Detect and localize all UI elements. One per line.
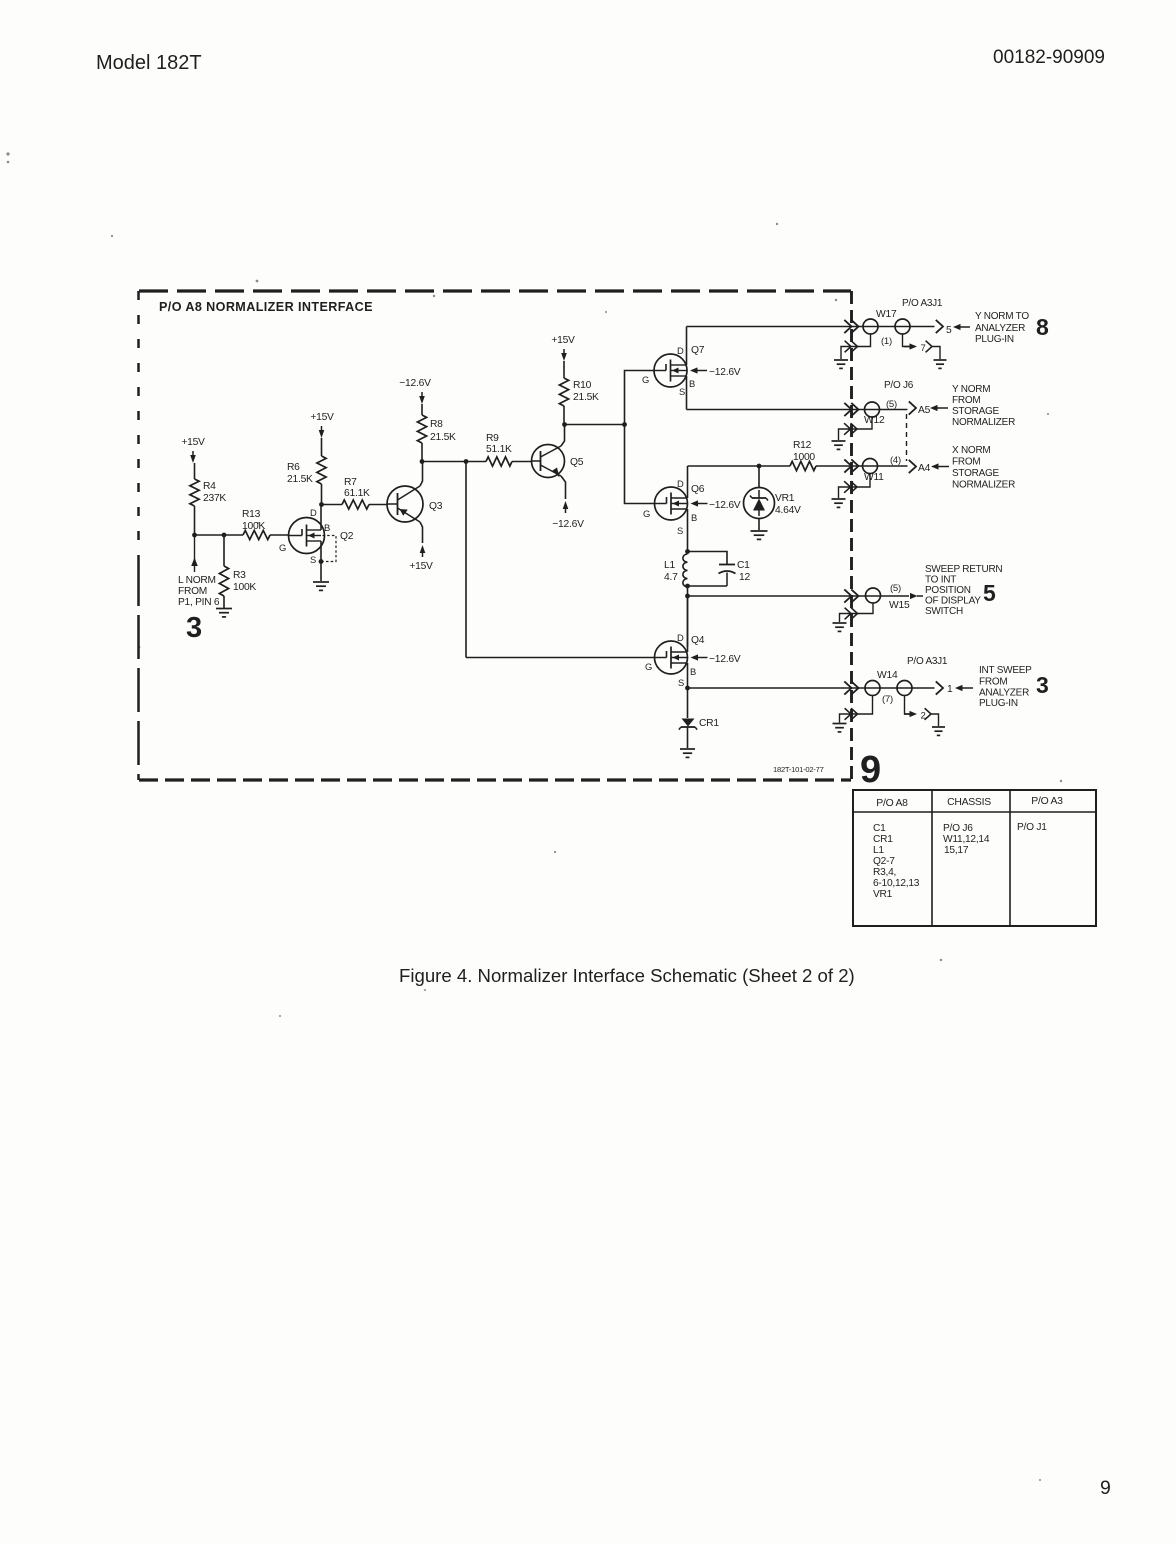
node Q2 drain / R6 / R7 — [319, 502, 324, 507]
wire node to main vertical — [422, 461, 466, 463]
svg-text:1000: 1000 — [793, 452, 815, 463]
svg-text:FROM: FROM — [979, 677, 1007, 688]
wire node to R3/R13 — [195, 534, 244, 536]
svg-text:W17: W17 — [876, 309, 897, 320]
X NORM pin A4 — [909, 460, 916, 473]
Q4 bulk -12.6V arrow — [691, 654, 699, 660]
Q7 drain wire up — [686, 327, 688, 366]
svg-text:9: 9 — [860, 749, 881, 791]
SWEEP RETURN output arrow — [910, 593, 918, 599]
svg-text:Model 182T: Model 182T — [96, 52, 202, 74]
svg-text:P1, PIN 6: P1, PIN 6 — [178, 597, 220, 608]
Q3 emitter wire to +15V — [420, 522, 423, 543]
wire R13 to Q2 gate — [270, 534, 289, 536]
svg-text:D: D — [677, 478, 684, 489]
svg-text:B: B — [689, 378, 695, 389]
node R8 / Q3 collector — [420, 459, 425, 464]
svg-text:−12.6V: −12.6V — [552, 519, 584, 530]
wire CR1 to ground — [687, 727, 689, 748]
svg-text:Q3: Q3 — [429, 501, 443, 512]
svg-text:61.1K: 61.1K — [344, 488, 370, 499]
svg-text:G: G — [642, 374, 649, 385]
svg-text:Q5: Q5 — [570, 457, 584, 468]
svg-text:+15V: +15V — [310, 412, 334, 423]
node L NORM input junction — [192, 533, 197, 538]
Y NORM TO output arrow pin 5 — [936, 320, 943, 333]
svg-text:15,17: 15,17 — [944, 845, 969, 856]
wire R3 to ground — [223, 596, 225, 608]
resistor R9 51.1K — [466, 461, 486, 463]
svg-text:9: 9 — [1100, 1477, 1111, 1499]
Q6 source wire down — [687, 509, 689, 552]
svg-text:Q7: Q7 — [691, 345, 705, 356]
node sweep return tap — [685, 594, 690, 599]
svg-text:−12.6V: −12.6V — [709, 367, 741, 378]
svg-text:B: B — [690, 666, 696, 677]
svg-text:L1: L1 — [873, 845, 884, 856]
svg-text:B: B — [691, 512, 697, 523]
svg-text:Y NORM TO: Y NORM TO — [975, 311, 1029, 322]
Y NORM FROM pin A5 — [909, 401, 916, 414]
ground below R3 — [216, 608, 232, 610]
svg-text:OF DISPLAY: OF DISPLAY — [925, 596, 981, 607]
svg-text:−12.6V: −12.6V — [709, 654, 741, 665]
svg-text:C1: C1 — [873, 823, 886, 834]
W11 ground tail — [839, 474, 871, 499]
svg-text:B: B — [324, 522, 330, 533]
svg-text:Q4: Q4 — [691, 635, 705, 646]
svg-text:CR1: CR1 — [699, 718, 719, 729]
W15 ground tail — [840, 603, 874, 622]
svg-text:12: 12 — [739, 572, 750, 583]
capacitor C1 — [688, 552, 751, 587]
resistor R4 237K — [190, 479, 199, 506]
svg-text:CHASSIS: CHASSIS — [947, 797, 991, 808]
svg-text:D: D — [677, 345, 684, 356]
svg-text:6-10,12,13: 6-10,12,13 — [873, 878, 920, 889]
svg-text:ANALYZER: ANALYZER — [979, 688, 1029, 699]
svg-text:−12.6V: −12.6V — [709, 500, 741, 511]
Q5 collector wire to R10 node — [561, 425, 565, 447]
svg-text:5: 5 — [983, 580, 996, 606]
svg-text:P/O J6: P/O J6 — [943, 823, 973, 834]
transistor Q6 (MOSFET) — [643, 478, 705, 536]
svg-text:1: 1 — [947, 684, 953, 695]
transistor Q4 (MOSFET) — [645, 632, 705, 688]
wire R7 to Q3 base — [369, 504, 387, 506]
svg-text:R8: R8 — [430, 419, 443, 430]
long vertical wire to Q4 gate — [465, 462, 467, 658]
wire R9 to Q5 base — [512, 461, 532, 463]
svg-text:G: G — [279, 542, 286, 553]
svg-text:STORAGE: STORAGE — [952, 468, 1000, 479]
Q6 bulk -12.6V arrow — [691, 500, 699, 506]
connector chevrons W11 — [844, 459, 851, 472]
wire VR1 to ground — [758, 519, 760, 531]
svg-text:S: S — [679, 386, 685, 397]
svg-text:W11: W11 — [864, 472, 884, 483]
Q3 collector wire to R8 node — [420, 462, 423, 487]
svg-text:S: S — [310, 554, 316, 565]
svg-text:(1): (1) — [881, 336, 892, 347]
transistor Q2 (MOSFET) — [279, 507, 354, 565]
svg-text:5: 5 — [946, 325, 952, 336]
svg-text:P/O A8: P/O A8 — [876, 798, 908, 809]
wire up to Q7 gate — [625, 371, 655, 425]
svg-text:L NORM: L NORM — [178, 575, 216, 586]
svg-text:FROM: FROM — [952, 395, 980, 406]
svg-text:A4: A4 — [918, 463, 931, 474]
zener diode VR1 4.64V — [744, 466, 802, 519]
svg-text:G: G — [643, 508, 650, 519]
Q2 source wire — [320, 541, 322, 581]
resistor R13 100K — [243, 530, 270, 539]
connector chevrons W17 — [844, 320, 851, 333]
svg-text:3: 3 — [1036, 672, 1049, 698]
resistor R12 1000 — [790, 461, 816, 470]
node Q6 source / L1 — [685, 549, 690, 554]
svg-text:(5): (5) — [890, 583, 901, 594]
svg-text:CR1: CR1 — [873, 834, 893, 845]
svg-text:7: 7 — [921, 343, 926, 354]
W14 ground tail left — [840, 696, 873, 723]
connector chevrons W14 — [844, 681, 851, 694]
svg-text:182T-101-02-77: 182T-101-02-77 — [773, 765, 824, 774]
connector circle W17 b — [895, 319, 910, 334]
svg-text:237K: 237K — [203, 493, 226, 504]
wire R8 to node — [421, 443, 423, 462]
svg-text:21.5K: 21.5K — [430, 432, 456, 443]
Y NORM TO wire — [687, 326, 935, 328]
svg-text:P/O A8 NORMALIZER INTERFACE: P/O A8 NORMALIZER INTERFACE — [159, 300, 373, 314]
resistor R8 21.5K — [417, 415, 426, 443]
svg-text:100K: 100K — [242, 521, 265, 532]
W17 pin 7 ground stub — [903, 334, 911, 347]
connector circle W14 a — [865, 681, 880, 696]
svg-text:P/O A3J1: P/O A3J1 — [902, 298, 943, 309]
svg-text:Q2: Q2 — [340, 531, 354, 542]
diode CR1 — [679, 688, 720, 730]
W12 ground tail — [839, 417, 873, 440]
svg-text:4.7: 4.7 — [664, 572, 678, 583]
Q4 source wire — [687, 663, 689, 688]
svg-text:R9: R9 — [486, 433, 499, 444]
svg-text:21.5K: 21.5K — [573, 392, 599, 403]
Q7 bulk -12.6V arrow — [690, 367, 698, 373]
node VR1 top — [757, 464, 762, 469]
node main vertical / R9 — [464, 459, 469, 464]
transistor Q3 (PNP) — [387, 486, 443, 522]
W14 pin 2 ground stub — [905, 696, 912, 715]
wire R4 to node — [194, 506, 196, 535]
Q2 bulk-to-source loop — [322, 536, 336, 562]
svg-text:VR1: VR1 — [873, 889, 893, 900]
W17 ground tail left — [841, 334, 871, 359]
board outline left border lower — [137, 562, 140, 780]
inductor L1 4.7 — [683, 554, 688, 587]
svg-text:POSITION: POSITION — [925, 585, 971, 596]
resistor R6 21.5K — [317, 456, 326, 484]
svg-text:G: G — [645, 661, 652, 672]
wire node to gate branch — [565, 424, 625, 426]
wire to Q4 gate — [466, 657, 655, 659]
svg-text:P/O A3: P/O A3 — [1031, 796, 1063, 807]
svg-text:R4: R4 — [203, 481, 216, 492]
node R10 / Q5 collector — [562, 422, 567, 427]
svg-text:S: S — [678, 677, 684, 688]
svg-text:PLUG-IN: PLUG-IN — [979, 698, 1018, 709]
svg-text:VR1: VR1 — [775, 493, 795, 504]
svg-text:8: 8 — [1036, 314, 1049, 340]
svg-text:PLUG-IN: PLUG-IN — [975, 334, 1014, 345]
svg-text:+15V: +15V — [181, 437, 205, 448]
svg-text:W14: W14 — [877, 670, 898, 681]
svg-text:00182-90909: 00182-90909 — [993, 47, 1105, 68]
node L1/C1 bottom — [685, 584, 690, 589]
svg-text:NORMALIZER: NORMALIZER — [952, 417, 1015, 428]
X NORM wire to R12 — [688, 465, 791, 467]
svg-text:R12: R12 — [793, 440, 812, 451]
resistor R3 100K — [223, 535, 225, 566]
svg-text:51.1K: 51.1K — [486, 444, 512, 455]
chassis boundary dash line (right border) — [850, 291, 853, 780]
svg-text:W15: W15 — [889, 600, 910, 611]
wire -12.6V to R8 — [421, 404, 423, 415]
svg-text:Y NORM: Y NORM — [952, 384, 990, 395]
svg-text:R10: R10 — [573, 380, 592, 391]
INT SWEEP input pin 1 — [936, 681, 943, 694]
Q7 source wire down — [686, 376, 688, 410]
wire +15V to R10 — [563, 361, 565, 378]
connector circle W12 — [865, 402, 880, 417]
svg-text:P/O A3J1: P/O A3J1 — [907, 656, 948, 667]
svg-text:SWEEP RETURN: SWEEP RETURN — [925, 564, 1002, 575]
Q5 emitter wire to -12.6V — [561, 476, 566, 499]
svg-text:W12: W12 — [864, 415, 885, 426]
board outline bottom border — [139, 778, 851, 781]
svg-text:STORAGE: STORAGE — [952, 406, 1000, 417]
svg-text:(7): (7) — [882, 694, 893, 705]
wire +15V to R6 — [321, 438, 323, 456]
svg-text:NORMALIZER: NORMALIZER — [952, 480, 1015, 491]
svg-text:SWITCH: SWITCH — [925, 606, 963, 617]
Q6 drain wire up — [687, 466, 689, 498]
wire R10 to node — [563, 406, 565, 425]
svg-text:P/O J1: P/O J1 — [1017, 822, 1047, 833]
svg-text:Q6: Q6 — [691, 484, 705, 495]
wire +15V to R4 — [194, 463, 196, 479]
connector chevrons W12 — [844, 403, 851, 416]
svg-text:100K: 100K — [233, 582, 256, 593]
svg-text:R13: R13 — [242, 509, 261, 520]
SWEEP RETURN wire — [688, 595, 910, 597]
svg-text:R3,4,: R3,4, — [873, 867, 896, 878]
svg-text:(5): (5) — [886, 399, 897, 410]
ground below Q2 source — [313, 581, 329, 583]
Q4 drain wire up — [687, 596, 689, 652]
ground below VR1 — [751, 530, 768, 532]
Y NORM FROM wire — [687, 409, 908, 411]
svg-text:P/O J6: P/O J6 — [884, 380, 914, 391]
resistor R7 61.1K — [322, 504, 343, 506]
node gate branch split — [622, 422, 627, 427]
svg-text:S: S — [677, 525, 683, 536]
svg-text:D: D — [310, 507, 317, 518]
connector chevrons W15 — [844, 589, 851, 602]
svg-text:(4): (4) — [890, 455, 901, 466]
svg-text:INT SWEEP: INT SWEEP — [979, 665, 1032, 676]
transistor Q5 (NPN) — [532, 445, 584, 478]
connector circle W15 — [866, 588, 881, 603]
board outline left border — [137, 291, 140, 562]
connector circle W17 a — [863, 319, 878, 334]
svg-text:FROM: FROM — [952, 457, 980, 468]
svg-text:21.5K: 21.5K — [287, 474, 313, 485]
node Q4 source / CR1 — [685, 686, 690, 691]
svg-text:A5: A5 — [918, 405, 931, 416]
svg-text:C1: C1 — [737, 560, 750, 571]
svg-text:Figure 4. Normalizer Interfac: Figure 4. Normalizer Interface Schematic… — [399, 965, 855, 986]
svg-text:ANALYZER: ANALYZER — [975, 323, 1025, 334]
transistor Q7 (MOSFET) — [642, 345, 705, 397]
INT SWEEP wire — [688, 687, 935, 689]
Q2 drain wire to node — [320, 505, 322, 531]
svg-text:D: D — [677, 632, 684, 643]
svg-text:−12.6V: −12.6V — [399, 378, 431, 389]
resistor R10 21.5K — [559, 378, 568, 406]
wire R12 to connector — [816, 465, 908, 467]
svg-text:R3: R3 — [233, 570, 246, 581]
svg-text:R7: R7 — [344, 477, 357, 488]
svg-text:+15V: +15V — [551, 335, 575, 346]
svg-text:X NORM: X NORM — [952, 445, 991, 456]
wire down to Q6 gate — [625, 425, 655, 504]
connector circle W14 b — [897, 681, 912, 696]
svg-text:TO INT: TO INT — [925, 575, 956, 586]
svg-text:L1: L1 — [664, 560, 675, 571]
svg-text:W11,12,14: W11,12,14 — [943, 834, 990, 845]
wire R6 to node — [321, 484, 323, 505]
J6 boundary dash line — [906, 414, 908, 461]
connector circle W11 — [863, 459, 878, 474]
wire down to Q4 drain — [687, 596, 689, 647]
ground below CR1 — [680, 748, 695, 750]
L NORM input arrow — [194, 535, 196, 572]
svg-text:R6: R6 — [287, 462, 300, 473]
wire L1 bottom — [687, 587, 689, 597]
board outline P/O A8 (dashed box) top border — [139, 289, 851, 292]
svg-text:3: 3 — [186, 612, 202, 644]
svg-text:4.64V: 4.64V — [775, 505, 801, 516]
reference designation table — [853, 790, 1096, 926]
svg-text:FROM: FROM — [178, 586, 207, 597]
svg-text:Q2-7: Q2-7 — [873, 856, 895, 867]
svg-text:+15V: +15V — [409, 561, 433, 572]
